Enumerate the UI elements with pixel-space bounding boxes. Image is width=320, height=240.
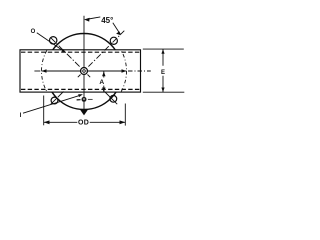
radial line to top-left hole	[50, 37, 79, 66]
E bottom extension line	[143, 91, 185, 93]
hidden line bottom	[21, 88, 140, 90]
radial line to bottom-left hole	[78, 75, 81, 78]
bolt hole bottom-right	[110, 95, 117, 102]
A dimension line	[103, 72, 105, 78]
radial line to bottom-right hole	[88, 75, 91, 78]
svg-text:45°: 45°	[101, 16, 113, 25]
bolt circle diameter line	[42, 70, 127, 72]
leader O through top-left hole to hidden line	[37, 33, 63, 51]
left arrow at bolt circle	[42, 69, 47, 72]
45 dim arrow at centerline	[84, 18, 90, 22]
svg-text:E: E	[161, 70, 165, 76]
flange plate rectangle	[20, 50, 141, 92]
svg-text:O: O	[31, 29, 36, 35]
OD dimension line	[44, 121, 78, 123]
OD right extension line	[124, 104, 126, 126]
radial line to top-right hole (extended for 45 dim)	[88, 31, 124, 67]
OD arrow left	[44, 120, 50, 124]
bolt hole bottom-left	[51, 97, 58, 104]
leader I past bottom-left hole to bottom face	[23, 96, 79, 114]
big housing circle (visible outside plate)	[46, 34, 122, 110]
svg-text:A: A	[99, 79, 104, 86]
45 degree dimension arc	[89, 17, 101, 19]
vertical centerline	[83, 16, 85, 112]
centerline bottom arrow	[80, 110, 88, 116]
grease fitting at bottom	[82, 97, 87, 102]
grease fitting centerline left dash	[77, 99, 81, 101]
horizontal centerline left dash	[34, 70, 40, 72]
A arrow up	[102, 72, 105, 77]
OD arrow right	[120, 120, 126, 124]
E top extension line	[143, 48, 184, 50]
svg-text:OD: OD	[78, 120, 89, 127]
center bullseye	[81, 68, 86, 73]
horizontal centerline right dash	[128, 70, 151, 72]
45 dim arrow at radial	[116, 31, 121, 35]
bolt hole top-left	[50, 37, 57, 44]
hidden line top	[21, 51, 140, 53]
grease fitting centerline right dash	[88, 98, 93, 100]
OD left extension line	[43, 96, 45, 126]
E arrow up	[161, 49, 164, 54]
bolt hole top-right	[110, 37, 117, 44]
E arrow down	[161, 88, 164, 93]
bolt circle (dash-dot, inside plate)	[42, 29, 127, 114]
E dimension line	[162, 49, 164, 66]
A arrow down	[102, 88, 105, 93]
right arrow at bolt circle	[122, 69, 127, 72]
